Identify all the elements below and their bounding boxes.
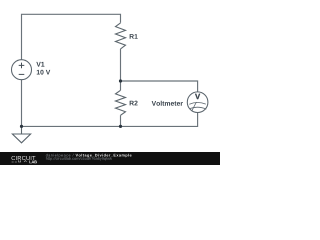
resistor R2 label xyxy=(130,101,138,106)
junction ground node dot at V1 xyxy=(20,125,23,128)
voltage source V1 name label xyxy=(36,62,44,67)
wire node A to R2 top xyxy=(120,81,122,90)
voltmeter M1 circle xyxy=(187,92,208,113)
junction ground node dot at R2 xyxy=(119,125,122,128)
voltage source V1 minus sign xyxy=(19,73,25,75)
voltage source V1 value label 10 V xyxy=(37,70,51,75)
wire node A to voltmeter top terminal xyxy=(121,81,198,92)
watermark CircuitLab logo LAB xyxy=(29,161,36,164)
watermark bar xyxy=(0,152,220,165)
resistor R1 label xyxy=(130,34,138,39)
voltmeter M1 meter scale lower arc xyxy=(190,107,206,109)
voltage source V1 plus sign xyxy=(19,63,25,69)
voltmeter M1 V marking xyxy=(195,94,200,99)
watermark title text xyxy=(76,154,132,158)
watermark url text xyxy=(46,157,112,161)
ground symbol triangle xyxy=(12,134,30,143)
voltmeter M1 meter scale upper arc xyxy=(189,103,206,105)
resistor R2 xyxy=(116,90,126,115)
watermark CircuitLab logo CIRCUIT xyxy=(11,156,35,160)
wire R1 bottom to node A xyxy=(120,49,122,81)
wire bottom rail from ground node to voltmeter bottom terminal xyxy=(22,112,198,126)
voltmeter M1 needle xyxy=(192,102,197,111)
voltage source V1 circle xyxy=(12,60,32,80)
junction node A dot xyxy=(119,79,122,82)
voltmeter label xyxy=(152,101,183,106)
wire V1 minus terminal to ground node xyxy=(21,80,23,127)
resistor R1 xyxy=(116,23,126,49)
watermark author text xyxy=(46,154,74,158)
wire R2 bottom lead xyxy=(120,115,122,126)
watermark CircuitLab logo waveform glyph xyxy=(12,160,27,162)
wire V1 plus terminal to R1 top (top rail) xyxy=(22,14,121,60)
ground symbol stub xyxy=(21,126,23,134)
